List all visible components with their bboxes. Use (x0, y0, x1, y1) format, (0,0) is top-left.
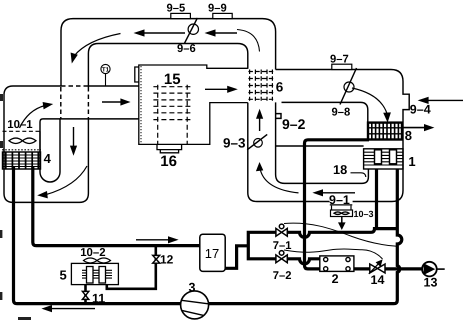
svg-text:10–2: 10–2 (80, 247, 105, 259)
damper 9-7 tab (332, 64, 352, 69)
wire left enclosure outline (4, 86, 88, 202)
arrow top duct left (142, 32, 185, 34)
compressor 3 (181, 291, 209, 319)
capillary from 7-1 (284, 223, 397, 246)
pipe HX4 left down (14, 167, 181, 304)
arrow out of 8 right (402, 127, 426, 129)
pipes thick group (14, 140, 445, 304)
wire middle duct bottom wall (43, 118, 138, 121)
arrow middle duct right (102, 101, 123, 103)
svg-text:8: 8 (405, 128, 412, 143)
pump 13 (422, 262, 437, 277)
arrow up in right duct (259, 117, 261, 132)
svg-text:7–1: 7–1 (273, 240, 292, 252)
heat exchanger 1 (364, 149, 403, 169)
fan 10-1 oval (9, 131, 40, 152)
svg-text:4: 4 (44, 151, 52, 166)
svg-text:9–1: 9–1 (329, 193, 350, 207)
svg-text:9–2: 9–2 (282, 116, 306, 132)
box 15 dashed core rows (153, 87, 191, 120)
arrow curved into left duct (74, 34, 121, 57)
pipe block1 left down (375, 169, 378, 229)
wire right vertical duct left wall (248, 103, 330, 202)
damper 9-7 blade (340, 68, 357, 105)
wire U-duct partition (40, 118, 60, 182)
box 15 dotted intake face (140, 66, 142, 144)
receiver 17 (200, 234, 225, 271)
pipe valve11 branch (84, 285, 87, 304)
arrow down from fan 10-3 (341, 217, 343, 223)
heat exchanger 8 (368, 123, 402, 140)
wire right vertical duct right wall lower (276, 102, 369, 183)
svg-text:15: 15 (164, 71, 181, 88)
heat exchanger 4 grid (2, 150, 41, 169)
condenser 5 coil (82, 267, 112, 284)
svg-text:T1: T1 (102, 66, 110, 73)
arrow left in duct 18 (321, 192, 355, 194)
arrow box15 outlet right (205, 88, 229, 90)
arrow corner arcs top right (237, 30, 260, 52)
svg-text:16: 16 (160, 153, 177, 170)
wire top duct inner wall (88, 44, 247, 88)
pipe box17 outlet (225, 232, 276, 268)
arrow curved up-left lower duct (261, 171, 299, 193)
svg-text:14: 14 (371, 273, 385, 287)
valve 14 (370, 264, 385, 273)
svg-text:3: 3 (189, 280, 196, 294)
arrow curved down into 8 (352, 88, 387, 113)
valve 14 arrow (369, 263, 379, 274)
heat exchanger 6 dashed grid (248, 70, 273, 101)
damper 9-6 blade (184, 18, 198, 44)
fan 10-2 ovals (84, 258, 111, 263)
svg-text:18: 18 (333, 162, 347, 177)
arrow curved bottom-left (46, 166, 87, 195)
svg-text:12: 12 (160, 252, 174, 266)
svg-text:5: 5 (60, 268, 67, 283)
svg-text:17: 17 (205, 246, 219, 261)
fan 10-1 dashed line (3, 130, 41, 132)
arrow left under bottom pipe (50, 308, 95, 310)
damper 9-2 notch (276, 114, 281, 119)
valve 7-1 (276, 224, 287, 236)
pipe HX4 right down to box17 (33, 167, 200, 246)
svg-text:9–4: 9–4 (410, 103, 431, 117)
svg-text:9–6: 9–6 (177, 43, 196, 55)
capillary from 7-2 (284, 249, 383, 259)
valve 7-2 (276, 251, 287, 263)
arrow top duct right (213, 32, 237, 34)
svg-text:9–8: 9–8 (332, 107, 351, 119)
box 15 dashed core verticals (158, 85, 188, 144)
box 15 outline (135, 65, 248, 144)
wire left vertical duct dashed crossing (61, 87, 89, 118)
pipe block1 right down to bottom (209, 169, 402, 304)
svg-text:10–1: 10–1 (7, 119, 33, 131)
svg-text:9–3: 9–3 (223, 136, 246, 151)
enclosure 18 top edge (276, 145, 364, 147)
svg-text:6: 6 (276, 79, 284, 94)
wire top-right duct top wall and right wall with 9-4 inlet tab (276, 70, 410, 202)
svg-text:10–3: 10–3 (354, 209, 374, 219)
component 16 stand (157, 144, 182, 152)
sensor T1 (101, 64, 110, 86)
arrow 9-4 inlet left (427, 99, 463, 101)
fan 10-3 box (330, 205, 353, 217)
wire enclosure top dashed mouth (61, 85, 88, 87)
pipe pump outlet stub (437, 268, 445, 270)
svg-text:11: 11 (92, 291, 105, 305)
wire top duct outer wall (61, 19, 276, 86)
label 18 leader (351, 173, 366, 177)
damper 9-3 (247, 134, 267, 149)
pipe valve14 line (354, 267, 422, 270)
wire top-right duct bottom wall (282, 102, 368, 122)
svg-text:2: 2 (332, 272, 339, 286)
damper 9-5 tab (171, 13, 191, 18)
valve 12 (153, 255, 160, 263)
svg-text:13: 13 (424, 275, 438, 289)
pipe 7-1 to block1 (287, 229, 397, 238)
svg-text:9–5: 9–5 (167, 3, 186, 15)
condenser 5 box (71, 263, 118, 284)
pipe riser to block8 (305, 140, 370, 269)
valve 11 (82, 291, 88, 299)
wire middle duct top wall (88, 85, 138, 87)
pipe valve12 branch (107, 246, 156, 289)
arrow down in left duct (73, 127, 75, 148)
svg-text:9–7: 9–7 (330, 53, 349, 65)
scan smudges (0, 94, 31, 320)
svg-text:9–9: 9–9 (208, 3, 227, 15)
svg-text:1: 1 (408, 154, 415, 169)
pipe 7-2 to box2 (287, 259, 320, 264)
svg-text:7–2: 7–2 (273, 270, 292, 282)
arrow curved into middle duct (20, 106, 46, 129)
arrow right above pipe (136, 239, 170, 241)
damper 9-9 tab (213, 13, 232, 18)
heat exchanger 2 plate (320, 256, 354, 272)
